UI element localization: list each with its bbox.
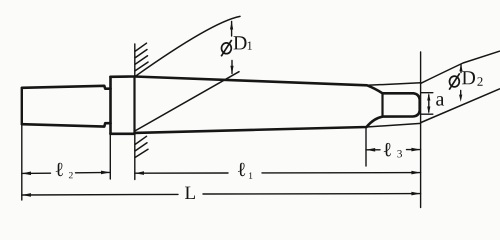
arrowhead phi-D2 bottom <box>459 95 462 102</box>
phi-D1 dimension line upper segment <box>231 21 233 36</box>
a dimension tick top <box>421 92 433 94</box>
phi-D2 dimension line upper segment <box>460 65 462 73</box>
l1 dimension line <box>135 172 421 175</box>
flange top edge <box>111 75 135 78</box>
label phi-D2: hand-drawn diameter symbol <box>449 73 460 89</box>
a dimension line <box>428 95 430 112</box>
arrowhead phi-D2 top <box>459 64 462 71</box>
hatching above body <box>135 43 148 71</box>
phi-D1 dimension line lower segment <box>231 61 233 74</box>
label l2 <box>56 163 73 179</box>
arrowhead l2 left <box>22 172 31 176</box>
label L <box>185 187 195 199</box>
phantom extension of taper top edge <box>367 83 421 86</box>
taper body outline: top edge, neck fillet, tang end, bottom edge <box>135 77 420 133</box>
arrowhead l2 right <box>101 171 110 175</box>
arrowhead a top <box>427 93 430 101</box>
arrowhead l1 right <box>411 171 420 175</box>
arrowhead a bottom <box>427 107 430 115</box>
flange right edge on datum <box>133 77 135 133</box>
hatching below body <box>135 136 148 157</box>
arrowhead phi-D1 bottom <box>230 66 233 74</box>
left end extension line (below part) <box>21 124 23 200</box>
label l3 <box>384 143 402 158</box>
shank small-end top edge with undercut notch <box>22 86 111 89</box>
l3 dimension line <box>366 149 421 151</box>
flange left face <box>109 77 112 134</box>
arrowhead L right <box>411 192 420 196</box>
neck shoulder edge line <box>381 93 383 116</box>
label D2 <box>462 71 483 86</box>
arrowhead L left <box>22 193 31 197</box>
flange bottom edge <box>111 133 135 136</box>
a dimension tick bottom <box>421 113 433 115</box>
arrowhead phi-D1 top <box>230 21 233 29</box>
phantom extension of taper bottom edge <box>367 123 421 127</box>
l2 right extension line (flange face continuation) <box>109 134 111 179</box>
l3 left extension line <box>365 128 367 167</box>
label D1 <box>234 36 253 50</box>
label a <box>436 96 444 106</box>
phi-D1 lower oblique extension line <box>135 72 239 131</box>
arrowhead l3 left <box>366 148 375 152</box>
arrowhead l3 right <box>411 148 420 152</box>
shank left end face <box>21 88 23 124</box>
L dimension line <box>22 194 421 195</box>
label l1 <box>238 163 252 179</box>
shank small-end bottom edge with undercut notch <box>22 123 111 126</box>
label phi-D1: hand-drawn diameter symbol <box>221 40 232 56</box>
l2 dimension line <box>22 172 111 173</box>
right end extension line <box>420 52 422 208</box>
datum extension line (gauge plane) <box>134 44 136 180</box>
phi-D2 lower oblique extension line <box>421 89 500 123</box>
phi-D2 upper oblique extension line <box>421 51 500 83</box>
phi-D2 dimension line lower segment <box>460 91 462 96</box>
phi-D1 upper oblique extension line <box>136 16 240 75</box>
arrowhead l1 left <box>135 171 144 175</box>
